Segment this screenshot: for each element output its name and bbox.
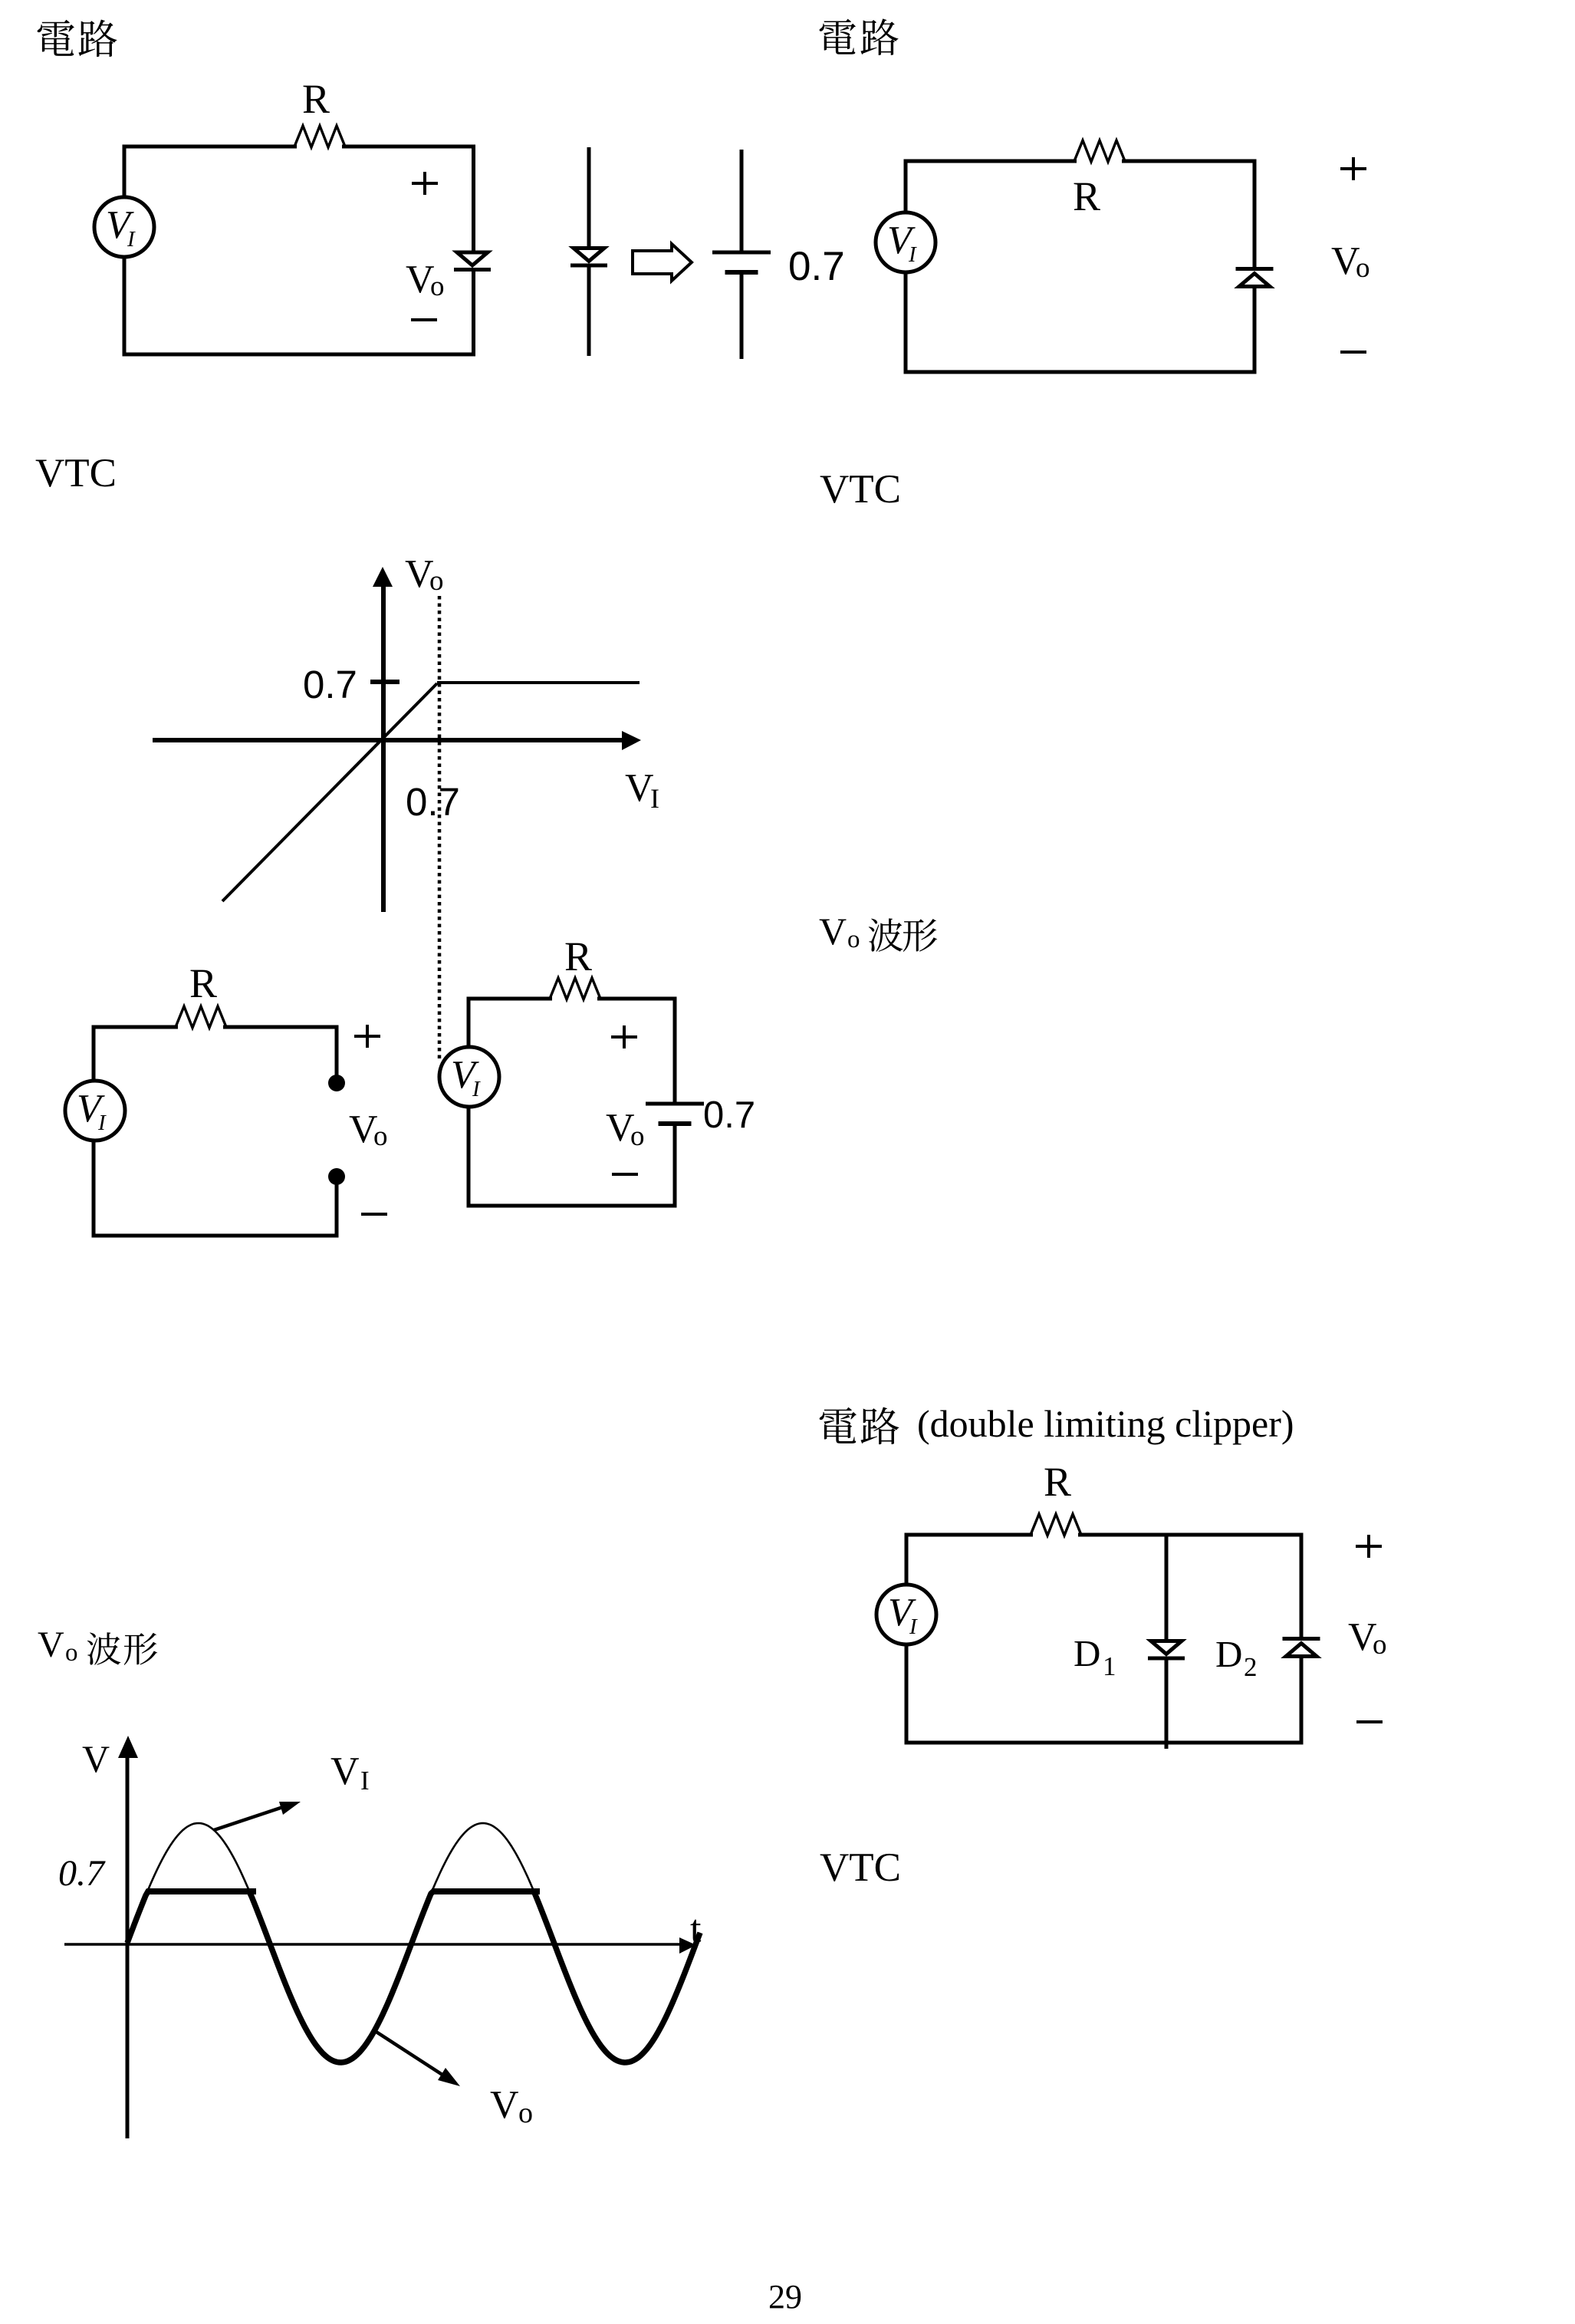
wire: circuit1 left lower (123, 255, 127, 357)
diode D2 (clipper, cathode up) (1283, 1639, 1320, 1657)
label Vo (circuit4) (606, 1106, 645, 1152)
diode D (circuit2, cathode up) (1236, 269, 1274, 287)
svg-text:R: R (302, 76, 330, 122)
guide: dotted line at VI=0.7 (438, 596, 442, 1061)
wire: circuit4 left upper (467, 997, 471, 1049)
svg-text:29: 29 (768, 2278, 802, 2316)
wire: clipper left upper (905, 1533, 909, 1587)
axis: t horizontal axis (waveform) (64, 1943, 681, 1946)
svg-text:2: 2 (1244, 1652, 1258, 1682)
wire: circuit3 right lower (335, 1182, 339, 1238)
svg-text:D: D (1074, 1632, 1100, 1674)
arrowhead: Vo axis (373, 567, 393, 587)
axis: V vertical axis (waveform) (126, 1753, 130, 2138)
wire: equivalent battery bottom lead (740, 272, 744, 359)
label Vo (waveform) (490, 2083, 533, 2129)
voltage source VI (circuit4) (439, 1047, 499, 1107)
label Vo (VTC y-axis) (405, 552, 444, 597)
label - (clipper output polarity) (1356, 1721, 1383, 1723)
arrowhead: V axis (118, 1736, 138, 1758)
node: open terminal bottom (circuit3) (328, 1168, 345, 1185)
axis: VI horizontal axis (153, 738, 623, 742)
wire: circuit4 right lower (673, 1124, 677, 1208)
wire: circuit4 top-left segment (467, 997, 553, 1001)
wire: circuit3 left lower (92, 1139, 96, 1238)
svg-text:o: o (429, 565, 444, 597)
wire: standalone diode cathode lead (587, 267, 591, 356)
label - (circuit3 output polarity) (361, 1213, 387, 1215)
svg-text:I: I (650, 783, 659, 814)
label: Vo 波形 (right) (819, 910, 937, 953)
svg-text:I: I (360, 1766, 370, 1796)
diode standalone (cathode down) (570, 249, 607, 266)
svg-text:R: R (1044, 1459, 1071, 1505)
wire: circuit1 top-right segment (342, 145, 475, 149)
wire: circuit2 left lower (904, 271, 908, 374)
arrow: VI callout (214, 1806, 285, 1830)
svg-text:VTC: VTC (820, 467, 901, 512)
wire: circuit2 right upper (1253, 160, 1257, 269)
svg-text:D: D (1215, 1633, 1242, 1675)
curve: VI thin sine wave (127, 1823, 700, 2062)
arrowhead: t axis (679, 1937, 696, 1954)
svg-text:o: o (373, 1121, 388, 1152)
label + (clipper output polarity) (1356, 1535, 1382, 1558)
label D2 (1215, 1633, 1258, 1682)
tick: 0.7 on Vo axis (370, 680, 400, 684)
wire: circuit3 bottom (92, 1234, 339, 1238)
curve: VTC clipped flat segment (437, 681, 640, 684)
label: 電路 (circuit) top-left (38, 20, 117, 58)
wire: circuit4 right upper (673, 997, 677, 1104)
wire: D1 branch lower (1165, 1659, 1169, 1749)
svg-text:0.7: 0.7 (703, 1095, 755, 1136)
label VI (waveform) (330, 1750, 370, 1796)
label + (circuit3 output polarity) (354, 1025, 380, 1048)
wire: circuit2 top-right segment (1122, 160, 1257, 163)
wire: clipper right upper (D2 branch) (1300, 1533, 1304, 1641)
svg-text:V: V (330, 1750, 360, 1793)
svg-text:1: 1 (1103, 1651, 1116, 1681)
svg-text:V: V (625, 766, 654, 810)
wire: standalone diode anode lead (587, 147, 591, 249)
label - (circuit1 output polarity) (411, 319, 437, 321)
wire: circuit2 left upper (904, 160, 908, 215)
curve: clip flat bar 2 (432, 1888, 540, 1894)
arrow: Vo callout (375, 2031, 445, 2076)
svg-text:o: o (518, 2097, 533, 2129)
label D1 (1074, 1632, 1116, 1681)
svg-text:R: R (189, 960, 217, 1006)
label: Vo 波形 (left) (38, 1624, 157, 1667)
label - (circuit4 output polarity) (612, 1174, 638, 1175)
svg-text:VTC: VTC (820, 1845, 901, 1890)
svg-text:VTC: VTC (35, 451, 117, 495)
svg-text:V: V (819, 910, 847, 953)
battery 0.7V (circuit4) (646, 1104, 704, 1124)
curve: VTC diagonal slope-1 segment (222, 683, 437, 901)
resistor R (circuit4) (550, 978, 600, 999)
node: open terminal top (circuit3) (328, 1075, 345, 1091)
axis: Vo vertical axis (381, 582, 386, 912)
svg-text:0.7: 0.7 (788, 244, 845, 289)
label VI (VTC x-axis) (625, 766, 659, 814)
wire: circuit1 top-left segment (123, 145, 298, 149)
voltage source VI (circuit3) (65, 1081, 125, 1141)
svg-text:R: R (564, 933, 592, 979)
wire: circuit2 bottom (904, 370, 1257, 374)
voltage source VI (circuit1) (94, 197, 154, 257)
svg-text:o: o (847, 926, 860, 953)
wire: circuit4 left lower (467, 1105, 471, 1208)
svg-text:o: o (1356, 252, 1370, 284)
curve: Vo thick clipped wave (127, 1891, 700, 2062)
arrow: implies (block arrow) (633, 244, 692, 281)
svg-text:0.7: 0.7 (58, 1853, 106, 1894)
label: 電路 (circuit) top-right (820, 18, 899, 55)
label Vo (circuit2) (1331, 239, 1370, 284)
svg-text:o: o (1373, 1629, 1387, 1661)
wire: clipper left lower (905, 1643, 909, 1745)
curve: clip flat bar 1 (147, 1888, 256, 1894)
wire: D1 branch upper (1165, 1533, 1169, 1642)
wire: clipper top-right segment (1078, 1533, 1304, 1537)
label + (circuit1 output polarity) (412, 172, 438, 195)
label + (circuit2 output polarity) (1340, 157, 1366, 180)
label Vo (circuit3) (349, 1108, 388, 1152)
wire: circuit4 top-right segment (597, 997, 677, 1001)
svg-text:V: V (38, 1624, 64, 1665)
svg-text:o: o (65, 1639, 78, 1667)
svg-text:V: V (490, 2083, 519, 2127)
wire: circuit3 left upper (92, 1025, 96, 1083)
svg-text:0.7: 0.7 (406, 780, 460, 824)
label - (circuit2 output polarity) (1340, 351, 1366, 353)
diode D1 (clipper, cathode down) (1148, 1641, 1185, 1659)
wire: circuit3 top-left segment (92, 1025, 179, 1029)
wire: circuit1 right upper (472, 145, 475, 254)
svg-text:0.7: 0.7 (303, 663, 357, 706)
svg-text:V: V (82, 1737, 110, 1780)
wire: clipper top-left segment (905, 1533, 1034, 1537)
diode D (circuit1, cathode down) (454, 252, 491, 270)
resistor R (clipper) (1031, 1514, 1081, 1536)
label + (circuit4 output polarity) (611, 1025, 637, 1048)
label Vo (clipper) (1348, 1615, 1387, 1661)
svg-text:o: o (430, 271, 445, 302)
wire: equivalent battery top lead (740, 150, 744, 252)
wire: circuit3 top-right segment (223, 1025, 339, 1029)
resistor R (circuit1) (294, 126, 345, 147)
wire: circuit2 top-left segment (904, 160, 1077, 163)
arrowhead: VI axis (622, 731, 641, 750)
svg-text:(double limiting clipper): (double limiting clipper) (917, 1402, 1294, 1445)
battery 0.7V (equivalent model) (712, 252, 771, 272)
svg-text:R: R (1073, 173, 1100, 219)
wire: circuit2 right lower (1253, 287, 1257, 374)
wire: clipper bottom (905, 1741, 1304, 1745)
wire: circuit3 right upper (335, 1025, 339, 1078)
voltage source VI (circuit2) (876, 212, 935, 272)
voltage source VI (clipper) (876, 1585, 936, 1644)
wire: circuit4 bottom (467, 1204, 677, 1208)
wire: circuit1 left upper (123, 145, 127, 199)
label: 電路 (double limiting clipper) (820, 1402, 1294, 1445)
resistor R (circuit3) (176, 1006, 226, 1028)
wire: circuit1 bottom (123, 353, 476, 357)
wire: circuit1 right lower (472, 271, 475, 357)
wire: clipper right lower (1300, 1657, 1304, 1745)
label Vo (circuit1) (406, 258, 445, 302)
svg-text:o: o (630, 1121, 645, 1152)
resistor R (circuit2) (1074, 140, 1125, 162)
